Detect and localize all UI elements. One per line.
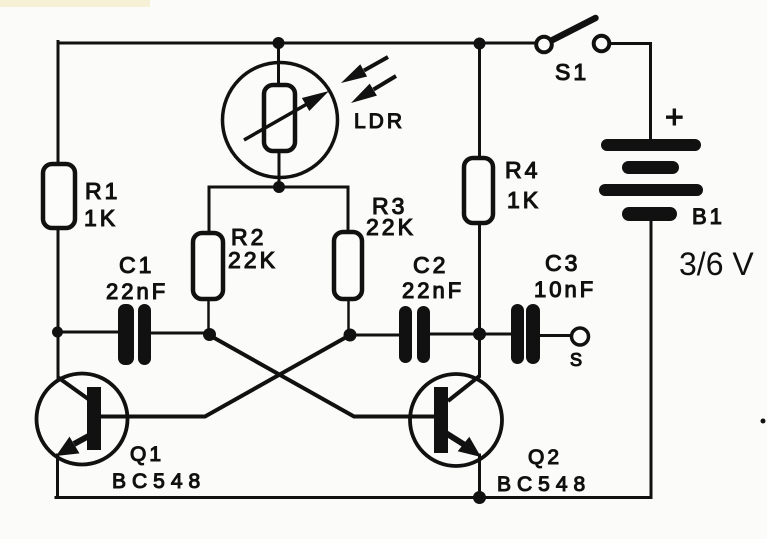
svg-text:22K: 22K [228, 247, 278, 273]
wire top rail [58, 42, 535, 45]
wire node to C2 [350, 334, 400, 337]
svg-text:LDR: LDR [354, 110, 405, 133]
wire switch to battery corner [609, 44, 651, 140]
node under R3 [344, 329, 357, 342]
light arrow lower [351, 76, 396, 103]
svg-text:BC548: BC548 [112, 470, 206, 493]
wire bus left to C1 [58, 331, 119, 334]
terminal S [572, 328, 589, 345]
node top rail LDR [273, 37, 285, 49]
battery B1 plate3 long [599, 184, 703, 196]
wire R3 bottom stub [347, 299, 350, 335]
wire R4 bottom to Q2 [478, 223, 481, 376]
capacitor C1 plates [118, 304, 151, 365]
wire C3 to S [539, 334, 572, 337]
svg-text:C1: C1 [119, 252, 154, 278]
wire R2 bottom stub [207, 299, 210, 334]
svg-text:10nF: 10nF [534, 277, 596, 302]
capacitor C2 plates [399, 306, 430, 363]
svg-text:+: + [665, 99, 687, 135]
svg-text:22K: 22K [366, 214, 416, 240]
svg-text:R4: R4 [505, 157, 540, 183]
wire left rail lower [56, 455, 59, 497]
wire R2 R3 connector [209, 187, 348, 233]
wire left rail upper [57, 42, 60, 165]
wire cross couple node R3 to Q1 base [100, 335, 350, 417]
node under R4 [473, 328, 486, 341]
LDR circle [223, 63, 338, 178]
switch S1 lever [552, 18, 596, 41]
node top rail R4 [474, 38, 486, 50]
battery B1 plate4 short [622, 207, 677, 221]
node bus left [52, 327, 63, 338]
capacitor C3 plates [511, 304, 540, 364]
svg-text:1K: 1K [84, 205, 118, 231]
wire C1 to node [149, 332, 210, 335]
svg-text:Q1: Q1 [130, 443, 164, 466]
switch S1 right contact [594, 36, 610, 52]
resistor R1 [43, 164, 75, 228]
wire Q2 emitter to rail [478, 455, 481, 497]
svg-text:1K: 1K [507, 187, 541, 213]
svg-text:S1: S1 [555, 59, 589, 85]
svg-text:R1: R1 [85, 178, 120, 204]
wire R4 top stub [478, 43, 481, 158]
wire LDR branch top [277, 43, 280, 86]
svg-text:22nF: 22nF [402, 278, 464, 303]
battery B1 plate1 long [601, 139, 701, 151]
resistor R3 [334, 232, 362, 299]
wire left rail mid [57, 228, 60, 377]
transistor Q2 [410, 374, 502, 466]
resistor R4 [464, 158, 493, 223]
wire bottom rail [56, 496, 651, 499]
svg-text:Q2: Q2 [528, 446, 562, 469]
LDR resistor body [264, 85, 295, 151]
speck dot right [761, 419, 766, 424]
wire C2 to R4 node [429, 333, 512, 336]
node under R2 [203, 328, 216, 341]
wire cross couple node R2 to Q2 base [209, 335, 434, 417]
node LDR bottom [273, 181, 285, 193]
LDR diagonal arrow [244, 91, 329, 140]
svg-text:C3: C3 [545, 250, 580, 276]
svg-text:S: S [570, 350, 585, 370]
svg-text:22nF: 22nF [106, 279, 168, 304]
wire LDR branch bottom [278, 150, 281, 187]
svg-text:C2: C2 [413, 252, 448, 278]
switch S1 left contact [536, 37, 552, 53]
wire battery bottom [650, 220, 653, 497]
node bottom rail Q2 [473, 491, 486, 504]
battery B1 plate2 short [622, 161, 679, 174]
svg-text:B1: B1 [692, 204, 725, 229]
svg-text:BC548: BC548 [497, 473, 591, 496]
svg-text:3/6 V: 3/6 V [679, 246, 754, 282]
resistor R2 [193, 233, 223, 299]
light arrow upper [341, 57, 388, 83]
transistor Q1 [37, 374, 128, 465]
